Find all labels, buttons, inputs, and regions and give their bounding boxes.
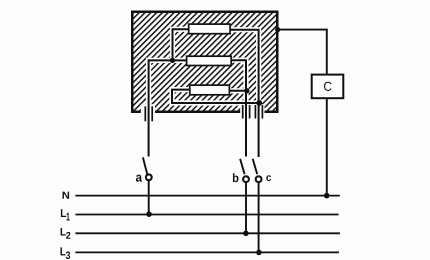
junction b on L2 — [243, 231, 249, 237]
label b — [233, 173, 239, 182]
wire R2 left lead to bushing a — [149, 60, 187, 156]
resistor R3 (bottom heating element) — [190, 85, 230, 95]
wire R3 left lead under-pass to net c — [172, 90, 259, 103]
junction a on L1 — [146, 211, 152, 217]
switch c blade — [253, 159, 258, 174]
label N — [62, 192, 69, 199]
wire R1 right lead down to bushing c (net c) — [230, 30, 259, 157]
wire R2 right lead down to bushing b (net b) — [231, 60, 246, 156]
bushing gap right (white break in bottom border for wires b and c) — [240, 104, 264, 114]
wire R3 right lead to net b — [229, 90, 246, 92]
wire switch a to L1 — [148, 181, 150, 215]
label a — [136, 175, 142, 182]
bushing a (feedthrough bars) — [145, 106, 152, 121]
bushing c (feedthrough bars) — [255, 105, 262, 119]
junction C wire on N — [324, 193, 330, 199]
label L3 — [61, 247, 66, 255]
label C — [324, 82, 331, 91]
bus line L1 — [75, 214, 338, 216]
wire halos (white casing of internal wires) — [149, 29, 259, 157]
label c — [266, 175, 271, 181]
wire capacitor C to neutral N — [326, 98, 328, 195]
bus line L3 — [75, 251, 339, 253]
switch a blade — [143, 157, 147, 174]
junction under-pass wire on net c — [256, 100, 262, 106]
label L1 — [61, 209, 66, 217]
switch a contact circle — [146, 174, 152, 180]
capacitor C (suppression capacitor box) — [312, 75, 344, 99]
wire switch b to L2 — [245, 183, 247, 234]
bus line N — [75, 195, 339, 197]
bushing gap left (white break in bottom border for wire a) — [141, 104, 155, 114]
switch b blade — [240, 159, 245, 174]
resistor R1 (top heating element) — [189, 24, 230, 34]
label L2 — [61, 228, 66, 236]
junction R1/R2 left leads — [170, 58, 175, 63]
wire case to capacitor C — [278, 30, 327, 75]
bushing b (feedthrough bars) — [243, 105, 250, 119]
resistor R2 (middle heating element) — [187, 56, 232, 65]
junction case to capacitor wire — [275, 27, 280, 32]
switch c contact circle — [256, 176, 262, 182]
junction c on L3 — [256, 250, 262, 256]
junction R3 right lead on net b — [244, 88, 249, 93]
bus line L2 — [75, 232, 340, 234]
switch b contact circle — [243, 176, 249, 182]
wire switch c to L3 — [258, 183, 260, 253]
enclosure case (hatched chassis box) — [132, 12, 277, 112]
wire R1 left lead down to R2 left lead — [173, 29, 189, 60]
